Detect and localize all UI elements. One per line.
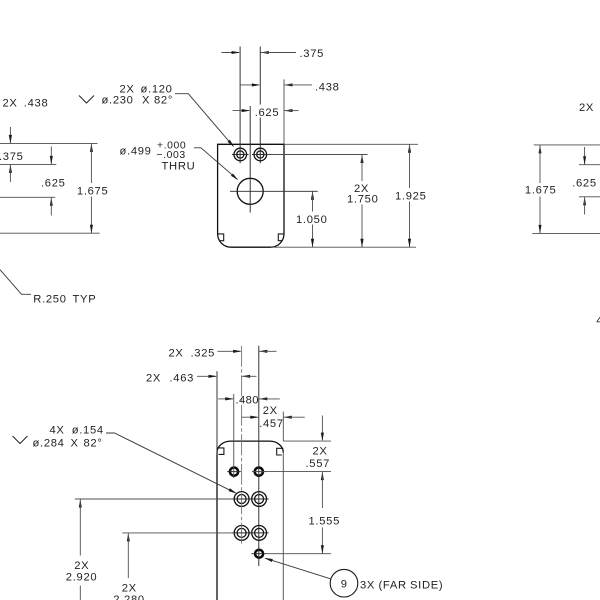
svg-text:.625: .625 [255, 107, 280, 119]
dimension 2X .457 line right [283, 416, 305, 418]
dimension 1.925 line lower [409, 202, 411, 248]
dimension 1.675 left line upper [90, 143, 92, 183]
dimension .625 left arrow above [50, 147, 52, 165]
dimension 1.050 arrow down [311, 239, 314, 248]
dimension .375 arrow right [260, 51, 269, 54]
part outline view 2 [217, 441, 283, 600]
dimension 1.675 left text [76, 184, 109, 197]
dimension 1.675 left arrow down [90, 225, 93, 234]
dimension 1.555 line upper [321, 472, 323, 508]
dimension 2X 1.750 line lower [361, 205, 363, 248]
dimension 1.675 right text [524, 184, 557, 197]
dimension 2X .457 arrow right [283, 416, 292, 419]
svg-text:ø.499: ø.499 [120, 146, 152, 158]
dimension 2X 2.280 arrow up [127, 533, 130, 542]
dimension .625 left arrow below [50, 197, 53, 206]
svg-text:.438: .438 [24, 97, 49, 109]
extension line hole P3 right [267, 553, 332, 555]
dimension 1.555 line lower [321, 528, 323, 554]
svg-text:(FAR: (FAR [379, 579, 407, 591]
dimension .625 line right [284, 110, 299, 112]
corner relief notch view2 top-right [277, 448, 284, 455]
dimension .480 arrow right [259, 397, 268, 400]
countersunk hole C1 view2 [234, 492, 249, 507]
countersink symbol callout 1 [79, 96, 94, 104]
svg-text:2X: 2X [122, 582, 137, 594]
svg-text:TYP: TYP [73, 293, 97, 305]
svg-text:2X: 2X [313, 446, 328, 458]
dimension 2X 2.920 arrow up [79, 499, 82, 508]
hole P2 view2 top-right [255, 468, 263, 476]
svg-text:2X: 2X [74, 560, 89, 572]
corner relief notch view1 bottom-right [278, 234, 284, 241]
dimension 1.675 right line upper [539, 145, 541, 183]
dimension 2X 2.920 line lower [79, 586, 81, 600]
dimension .480 line right [259, 398, 280, 400]
dimension 1.675 left line lower [90, 197, 92, 234]
dimension .625 arrow right [284, 109, 293, 112]
svg-text:82°: 82° [84, 437, 103, 449]
dimension .375 left arrow above [9, 127, 11, 143]
svg-text:1.675: 1.675 [77, 186, 109, 198]
dimension 2X .325 arrow left [233, 350, 242, 353]
extension line bottom edge right [271, 246, 416, 248]
svg-text:X: X [71, 437, 79, 449]
svg-text:X: X [142, 95, 150, 107]
svg-text:4X: 4X [50, 425, 65, 437]
dimension .625 right arrow below [583, 197, 586, 206]
part edge view 2 right [282, 453, 284, 600]
cross hole P3 [252, 553, 267, 555]
dimension 1.675 right arrow down [539, 225, 542, 234]
dimension 2X .463 arrow left [209, 375, 218, 378]
dimension 1.555 arrow down [321, 545, 324, 554]
left view line 2 [0, 163, 56, 165]
center line hole D vertical [249, 106, 251, 213]
dimension .480 arrow left [225, 397, 234, 400]
dimension .625 text [253, 105, 281, 118]
extension line hole P1 vertical [233, 394, 235, 478]
svg-text:.325: .325 [191, 348, 216, 360]
left view line bottom [0, 232, 100, 234]
svg-text:1.675: 1.675 [525, 185, 557, 197]
svg-text:.463: .463 [170, 373, 195, 385]
svg-text:2X: 2X [146, 373, 161, 385]
svg-text:4: 4 [596, 315, 600, 327]
svg-text:2X: 2X [579, 102, 594, 114]
dimension 2X .557 line upper [321, 416, 323, 441]
svg-text:.557: .557 [306, 458, 331, 470]
extension line holes column right [258, 346, 260, 566]
left view line top [0, 142, 98, 144]
corner relief notch view1 bottom-left [218, 234, 224, 241]
dimension 1.675 left arrow up [90, 143, 93, 152]
dimension 2X .557 arrow down [321, 433, 324, 442]
dimension 1.675 right arrow up [539, 145, 542, 154]
right view line top [534, 144, 600, 146]
svg-text:3X: 3X [360, 579, 375, 591]
leader callout holes H1H2 [175, 94, 233, 146]
cross hole C4 [250, 532, 269, 534]
right view line 3 [579, 196, 600, 198]
dimension 2X .463 arrow right [242, 375, 251, 378]
dimension 2X .463 line left [197, 375, 216, 377]
svg-text:2X: 2X [263, 405, 278, 417]
svg-text:1.050: 1.050 [296, 214, 328, 226]
dimension 2X .457 arrow left [250, 416, 258, 419]
hole D .499 THRU view1 [237, 178, 263, 204]
extension line view2 right edge up [282, 412, 284, 442]
svg-text:.457: .457 [259, 418, 284, 430]
extension line holes C row1 left [75, 498, 232, 500]
dimension .438 line left [240, 84, 259, 86]
svg-text:9: 9 [341, 578, 348, 590]
balloon 9 leader [266, 558, 331, 579]
left view line 3 [0, 196, 55, 198]
dimension .375 line right [260, 52, 296, 54]
dimension .375 arrow left [232, 51, 241, 54]
leader callout holes C [106, 433, 236, 493]
svg-text:2.920: 2.920 [66, 572, 98, 584]
extension line holes P row right [252, 471, 331, 473]
svg-text:2X: 2X [3, 97, 18, 109]
extension line view2 top edge right [283, 440, 331, 442]
dimension .625 right arrow above [584, 147, 586, 165]
svg-text:.625: .625 [41, 177, 66, 189]
dimension 2X 1.750 arrow down [360, 239, 363, 248]
svg-text:.480: .480 [236, 394, 259, 406]
countersunk hole H1 view1 [234, 148, 247, 161]
svg-text:1.925: 1.925 [395, 191, 427, 203]
svg-text:1.555: 1.555 [309, 516, 341, 528]
dimension 1.925 arrow down [408, 239, 411, 248]
svg-text:82°: 82° [154, 95, 173, 107]
dimension .375 left arrow below [9, 164, 12, 173]
svg-text:.625: .625 [572, 178, 597, 190]
svg-text:SIDE): SIDE) [410, 579, 443, 591]
extension line view2 left edge up [216, 371, 218, 455]
countersunk hole C4 view2 [252, 526, 267, 541]
center line hole H2 vertical [259, 47, 261, 164]
part outline view 1 [218, 144, 284, 247]
right view line bottom [532, 232, 600, 234]
dimension 1.925 line upper [409, 144, 411, 188]
hole P3 far side view2 [255, 550, 263, 558]
dimension 1.050 arrow up [311, 191, 314, 200]
cross hole C3 [232, 532, 251, 534]
svg-text:.375: .375 [300, 48, 325, 60]
countersunk hole C2 view2 [252, 492, 267, 507]
dimension .625 line left [233, 110, 249, 112]
cross hole C2 [250, 498, 269, 500]
extension line top edge right [284, 143, 418, 145]
dimension .438 line right [284, 84, 312, 86]
dimension 2X .325 line left [218, 350, 241, 352]
cross hole C1 [232, 498, 251, 500]
extension line holes C row2 left [122, 532, 232, 534]
svg-text:2.280: 2.280 [113, 594, 145, 600]
center line holes C1C3 vertical dashed [241, 346, 243, 545]
balloon 9 circle [330, 569, 358, 597]
dimension 2X 2.920 line upper [79, 499, 81, 556]
dimension .480 line left [218, 398, 233, 400]
dimension 1.050 line lower [312, 225, 314, 248]
dimension 2X 1.750 line upper [361, 155, 363, 182]
dimension 2X .457 line left [242, 416, 258, 418]
dimension .625 arrow left [242, 109, 251, 112]
center line hole H1 vertical [239, 47, 241, 164]
center line hole D horizontal [230, 190, 318, 192]
right view line 2 [579, 164, 600, 166]
svg-text:ø.230: ø.230 [102, 95, 134, 107]
corner relief notch view2 top-left [217, 448, 224, 455]
dimension 2X 2.280 line [127, 533, 129, 578]
dimension 1.675 right line lower [539, 197, 541, 234]
countersunk hole C3 view2 [234, 526, 249, 541]
countersink symbol callout 2 [13, 436, 28, 444]
dimension .438 arrow right [284, 83, 293, 86]
extension line hole row right [267, 154, 368, 156]
leader R.250 TYP [0, 270, 31, 295]
countersunk hole H2 view1 [254, 148, 267, 161]
dimension 2X 1.750 arrow up [360, 155, 363, 164]
svg-text:.438: .438 [315, 82, 340, 94]
dimension 2X .325 line right [259, 350, 277, 352]
svg-text:.375: .375 [0, 151, 24, 163]
svg-text:ø.154: ø.154 [72, 425, 104, 437]
svg-text:R.250: R.250 [33, 293, 66, 305]
svg-text:THRU: THRU [162, 160, 196, 172]
dimension 2X .557 arrow up [321, 472, 324, 481]
dimension 1.050 line upper [312, 191, 314, 211]
svg-text:1.750: 1.750 [347, 194, 379, 206]
svg-text:ø.284: ø.284 [33, 437, 65, 449]
dimension 2X .325 arrow right [259, 350, 268, 353]
extension line right edge up [283, 79, 285, 144]
dimension .375 line left [222, 52, 240, 54]
dimension 2X .463 line right [242, 375, 257, 377]
svg-text:2X: 2X [169, 348, 184, 360]
dimension 1.925 arrow up [408, 144, 411, 153]
dimension .438 arrow left [252, 83, 260, 86]
leader callout D.499 [194, 148, 237, 180]
hole P1 view2 top-left [230, 468, 238, 476]
